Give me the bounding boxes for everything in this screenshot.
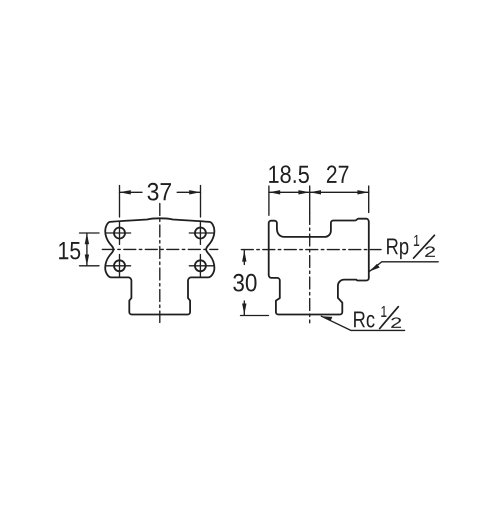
crosshair horizontal bottom-right hole [189,265,213,267]
hole bottom-left [114,260,125,271]
crosshair horizontal top-right hole [189,232,213,234]
dim line 18.5 / 27 [269,191,369,193]
label Rp [387,239,408,260]
vertical centerline front view [159,204,161,323]
label Rc-frac-2 [391,317,401,328]
fraction 1 foot serif Rp [414,245,419,246]
label Rp-frac-2 [425,246,435,257]
label Rp-frac-1 [414,235,419,246]
dim 30 bottom extension line [241,315,269,317]
part outline (side view body) [269,219,369,315]
crosshair horizontal bottom-left hole [106,265,130,267]
leader arrow Rc1/2 [321,316,332,321]
dim ext line right (27) [368,186,370,213]
fraction 1 foot serif Rc [381,316,386,317]
leader arrow Rp1/2 [369,264,379,272]
horizontal centerline front view [102,248,218,250]
dim 37 extension line right [200,186,202,217]
dim 30 upper arrow [243,250,245,264]
label Rc [354,312,375,328]
dim 15 line with arrows [86,233,88,266]
crosshair vertical right holes [199,222,201,244]
label 18.5 [269,165,309,183]
hole top-right [195,228,206,239]
leader line Rc1/2 [321,316,404,330]
dim 15 extension ticks [80,232,100,234]
dim 30 lower arrow [243,301,245,315]
fraction slash Rp1/2 [414,235,435,258]
crosshair horizontal top-left hole [106,232,130,234]
hole bottom-right [195,260,206,271]
fraction slash Rc1/2 [380,307,399,329]
dim ext line left (18.5) [268,186,270,215]
vertical centerline side view [309,213,311,323]
label 15 [59,242,80,259]
label 30 [233,274,256,292]
label 27 [327,165,349,183]
part outline (front view body) [105,218,214,314]
leader line Rp1/2 [369,262,438,272]
dim 37 line left segment with arrow [120,191,143,193]
crosshair vertical left holes [119,222,121,244]
dim ext line middle [309,186,311,213]
hole top-left [114,228,125,239]
horizontal centerline side view [241,249,381,251]
label 37 [148,183,172,201]
label Rc-frac-1 [382,306,387,317]
dim 37 extension line left [119,186,121,217]
dim 37 line right segment with arrow [177,191,200,193]
